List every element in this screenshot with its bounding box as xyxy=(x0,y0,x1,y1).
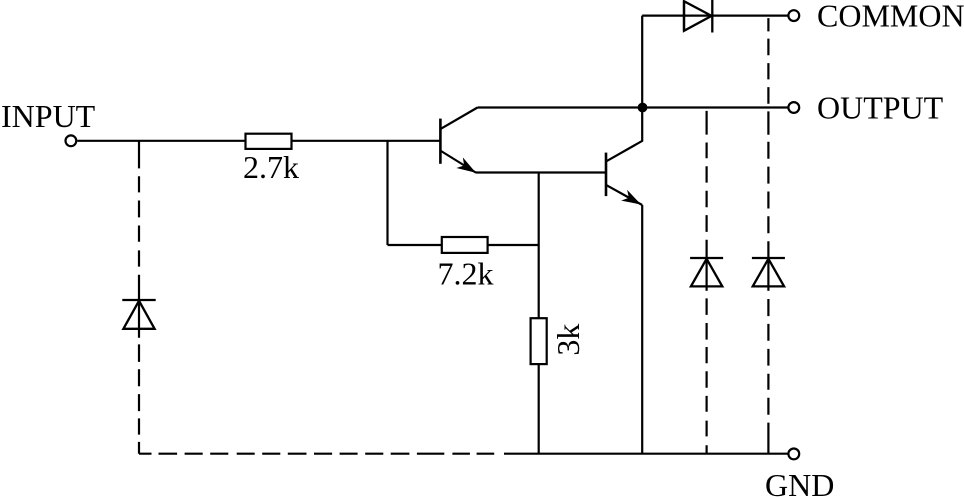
diode D2 output clamp xyxy=(690,258,723,286)
svg-text:COMMON: COMMON xyxy=(817,0,964,33)
wire 3k to ground xyxy=(538,364,540,454)
terminal COMMON circle xyxy=(788,10,799,21)
wire 7.2k horizontal xyxy=(388,244,539,246)
wire 3k branch vertical xyxy=(538,173,540,319)
resistor R2 7.2k xyxy=(442,237,488,253)
svg-text:GND: GND xyxy=(765,467,834,497)
transistor Q2 base bar xyxy=(605,153,608,197)
resistor R3 3k xyxy=(531,318,547,364)
terminal OUTPUT circle xyxy=(788,102,799,113)
wire dashed clamp D3 vertical xyxy=(767,18,769,454)
label 7.2k xyxy=(438,255,494,291)
svg-text:3k: 3k xyxy=(550,324,586,356)
wire ground horizontal xyxy=(504,453,788,455)
label GND xyxy=(765,467,834,497)
resistor R1 2.7k xyxy=(246,134,292,149)
wire dashed clamp D2 vertical xyxy=(705,111,707,454)
wire emitter2 to ground vertical xyxy=(641,205,643,454)
wire emitter1 to base2 xyxy=(476,171,607,173)
transistor Q1 emitter xyxy=(441,151,476,173)
svg-text:INPUT: INPUT xyxy=(1,98,96,134)
wire collector to common vertical xyxy=(641,16,643,108)
terminal GND circle xyxy=(788,449,799,460)
diode D4 input clamp xyxy=(122,300,155,329)
wire common horizontal xyxy=(642,15,788,17)
diode D3 common clamp xyxy=(752,258,785,286)
svg-text:7.2k: 7.2k xyxy=(438,255,494,291)
wire base branch vertical xyxy=(386,141,388,245)
transistor Q1 collector xyxy=(441,108,478,129)
transistor Q2 collector xyxy=(607,108,643,162)
label OUTPUT xyxy=(817,89,944,125)
transistor Q2 emitter xyxy=(607,185,643,205)
label 3k rotated xyxy=(550,324,586,356)
wire input horizontal xyxy=(77,140,440,142)
wire output horizontal xyxy=(478,106,789,108)
junction dot xyxy=(638,103,648,113)
terminal INPUT circle xyxy=(66,135,77,146)
transistor Q1 base bar xyxy=(439,119,442,164)
svg-text:OUTPUT: OUTPUT xyxy=(817,89,944,125)
svg-text:2.7k: 2.7k xyxy=(243,149,299,185)
label INPUT xyxy=(1,98,96,134)
wire dashed bottom xyxy=(139,453,504,455)
wire dashed input-clamp vertical xyxy=(138,141,140,454)
label 2.7k xyxy=(243,149,299,185)
label COMMON xyxy=(817,0,964,33)
diode D1 common xyxy=(684,0,712,33)
